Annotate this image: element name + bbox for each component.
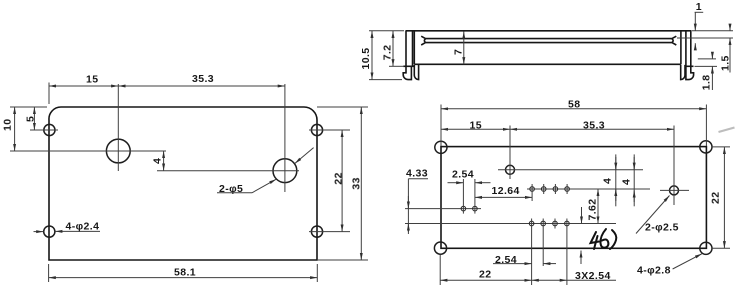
label 2-phi5 with leader [217, 148, 314, 195]
pin row 2 [405, 219, 616, 286]
svg-text:22: 22 [479, 269, 491, 281]
dim 15 (top) [49, 74, 118, 105]
svg-text:1: 1 [696, 1, 702, 13]
dim 2.54 (left pair) [448, 169, 491, 183]
svg-text:5: 5 [25, 116, 37, 122]
right foot hook [686, 66, 694, 79]
plate outline [49, 107, 317, 260]
dim 4 and 4 (pcb) [602, 154, 635, 206]
svg-text:4: 4 [602, 178, 614, 184]
dim 4 (between big holes) [152, 151, 164, 171]
svg-text:4-φ2.8: 4-φ2.8 [637, 265, 671, 277]
handwritten mark 4.6) [591, 229, 617, 249]
dim 10.5 [360, 31, 404, 80]
dim 7 [453, 32, 465, 65]
svg-text:15: 15 [470, 119, 482, 131]
dim 2.54 (bottom) [493, 254, 556, 266]
svg-text:10.5: 10.5 [360, 47, 372, 69]
svg-text:15: 15 [86, 74, 98, 86]
svg-text:22: 22 [333, 172, 345, 184]
svg-text:1.8: 1.8 [701, 75, 713, 91]
label 2-phi2.5 with leader [636, 196, 679, 234]
left pin pair [405, 179, 481, 214]
left foot hook [403, 66, 411, 79]
svg-text:10: 10 [2, 119, 14, 131]
corner hole TL (phi2.8) [435, 141, 447, 153]
big hole 2 (phi5) [157, 84, 299, 192]
dim 35.3 (top) [118, 73, 285, 86]
svg-text:4-φ2.4: 4-φ2.4 [66, 220, 100, 232]
dim 35.3 (pcb top) [510, 119, 674, 131]
svg-text:3X2.54: 3X2.54 [575, 270, 611, 282]
svg-text:35.3: 35.3 [192, 73, 214, 85]
hole bottom-right (phi2.4) [309, 226, 350, 237]
svg-text:58.1: 58.1 [174, 267, 196, 279]
svg-text:4.33: 4.33 [406, 168, 428, 180]
svg-text:12.64: 12.64 [492, 185, 520, 197]
svg-text:7: 7 [453, 49, 465, 55]
dim 1.5 (right) [677, 24, 733, 73]
label 4-phi2.8 with leader [637, 254, 702, 277]
label 4-phi2.4 with diameter arrows [34, 220, 101, 232]
svg-text:1.5: 1.5 [720, 55, 732, 71]
dim 7.62 [581, 189, 599, 264]
side body outline [403, 31, 693, 67]
svg-text:7.2: 7.2 [382, 45, 394, 61]
corner hole BR (phi2.8) [700, 242, 712, 254]
svg-text:7.62: 7.62 [587, 198, 599, 220]
hole col2 (phi2.5) [660, 126, 689, 206]
dim 10 (left) [2, 107, 47, 151]
hole col1 (phi2.5) [498, 126, 643, 180]
svg-text:4: 4 [152, 158, 164, 164]
right pin leg [681, 65, 685, 80]
dim 1.8 (right, feet) [695, 52, 718, 90]
dim 22 (right) [333, 130, 345, 232]
dim 58 (top) [441, 98, 706, 146]
hole top-right (phi2.4) [309, 124, 350, 135]
svg-text:4: 4 [621, 179, 633, 185]
dim 15 (pcb top) [441, 119, 510, 131]
svg-text:22: 22 [710, 192, 722, 204]
dim 1 (top right) [695, 1, 704, 49]
svg-text:35.3: 35.3 [583, 119, 605, 131]
left pin leg [414, 65, 418, 80]
dim 5 (left) [25, 107, 37, 130]
slot (card opening) [421, 36, 676, 45]
dim 22 (pcb bottom) [440, 255, 531, 286]
svg-text:2.54: 2.54 [452, 169, 474, 181]
pcb outline [441, 147, 706, 249]
dim 58.1 (bottom) [49, 264, 318, 282]
dim 4.33 (left) [406, 168, 428, 235]
dim 3X2.54 (bottom) [532, 270, 616, 282]
pin row 1 [527, 184, 650, 201]
big hole 1 (phi5) [10, 84, 166, 171]
dim 22 (pcb right) [710, 147, 730, 248]
hole top-left (phi2.4) [30, 124, 58, 135]
svg-text:58: 58 [568, 98, 580, 110]
dim 7.2 [382, 31, 405, 67]
svg-text:2-φ2.5: 2-φ2.5 [645, 222, 679, 234]
dim 12.64 [475, 185, 532, 197]
pencil dash [719, 128, 735, 133]
corner hole BL (phi2.8) [434, 242, 446, 254]
dim 33 (right) [317, 107, 368, 260]
corner hole TR (phi2.8) [700, 141, 712, 153]
svg-text:33: 33 [350, 177, 362, 189]
hole bottom-left (phi2.4) [44, 226, 55, 237]
